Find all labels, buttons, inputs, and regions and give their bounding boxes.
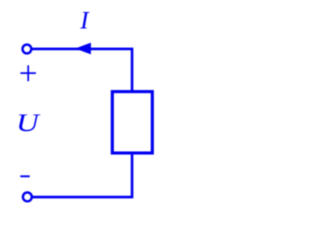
svg-text:U: U [16, 110, 41, 137]
svg-text:I: I [79, 8, 90, 35]
